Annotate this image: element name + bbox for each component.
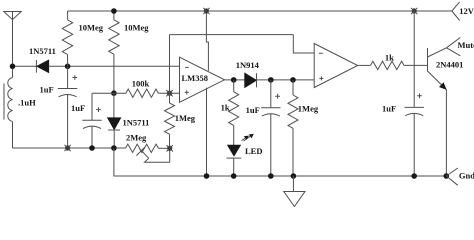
node X C4 top rail	[411, 8, 417, 14]
resistor R1 10Meg	[67, 11, 69, 20]
node dot C3 ground	[269, 174, 274, 179]
node dot C2 bottom	[90, 146, 95, 151]
node dot input-left	[10, 64, 15, 69]
node X 100k right / plus input	[166, 90, 172, 96]
resistor R2 10Meg	[113, 11, 115, 20]
svg-text:10Meg: 10Meg	[79, 22, 104, 32]
node dot R7 top	[291, 78, 296, 83]
node X 2Meg right / R4 bottom	[167, 145, 173, 151]
wire 100k node left to C2	[92, 92, 126, 94]
inductor L1 .1uH	[8, 78, 13, 122]
svg-text:LM358: LM358	[182, 73, 208, 83]
diode D3 1N914 (points right)	[245, 73, 256, 87]
wire R8 to Q1 base	[404, 64, 428, 66]
terminal Gnd	[446, 168, 458, 185]
plus sign C1	[72, 75, 77, 80]
wire U1A output	[225, 79, 315, 81]
wire feedback plus-node up	[169, 35, 171, 94]
svg-text:1uF: 1uF	[246, 105, 260, 115]
node dot R7 ground	[291, 174, 296, 179]
plus sign C2	[96, 107, 101, 112]
svg-text:1uF: 1uF	[40, 85, 54, 95]
svg-text:1N5711: 1N5711	[29, 46, 56, 56]
diode D1 1N5711 (points left)	[35, 60, 37, 73]
svg-text:12V: 12V	[459, 6, 474, 16]
svg-text:1uF: 1uF	[71, 103, 85, 113]
resistor R4 1Meg	[169, 93, 171, 103]
svg-text:2Meg: 2Meg	[126, 133, 147, 143]
op-amp U1A LM358	[180, 57, 225, 102]
svg-text:1N5711: 1N5711	[123, 117, 150, 127]
resistor R8 1k	[371, 61, 405, 69]
diode D2 1N5711 (points down)	[108, 118, 121, 129]
svg-text:10Meg: 10Meg	[124, 22, 149, 32]
wire U1B output	[358, 64, 371, 66]
svg-text:1uF: 1uF	[382, 104, 396, 114]
node dot D2 bottom	[112, 146, 117, 151]
wire input node horizontal	[13, 65, 37, 67]
plus sign C4	[417, 93, 422, 98]
wire feedback down to U1B minus	[293, 35, 314, 53]
wire LED to ground rail	[233, 158, 235, 176]
wire L1 bottom to bus	[12, 122, 14, 149]
potentiometer R5 2Meg	[126, 144, 159, 152]
terminal 12V	[452, 2, 460, 21]
Q1 emitter with arrow	[428, 71, 447, 90]
wire antenna lead down	[12, 20, 14, 78]
svg-text:1N914: 1N914	[236, 60, 260, 70]
wiper arrow 2Meg	[136, 147, 148, 158]
capacitor C1 1uF	[67, 66, 69, 88]
svg-text:.1uH: .1uH	[18, 97, 36, 107]
wire Q1 emitter to ground	[445, 90, 447, 176]
plus sign U1A	[185, 90, 189, 94]
Q1 collector	[428, 48, 447, 57]
capacitor C2 1uF	[91, 93, 93, 120]
wire D2 to bus	[113, 130, 115, 148]
svg-text:Gnd: Gnd	[459, 170, 474, 180]
svg-text:LED: LED	[245, 146, 262, 156]
capacitor C3 1uF	[270, 80, 272, 108]
node dot R2 top rail	[112, 9, 117, 14]
svg-text:2N4401: 2N4401	[436, 60, 463, 70]
wire feedback horizontal	[170, 34, 294, 36]
resistor R6 1k	[233, 80, 235, 92]
op-amp U1B	[314, 44, 358, 88]
node X C1 bottom	[64, 145, 70, 151]
LED D4	[228, 145, 241, 156]
node dot C4 ground	[412, 174, 417, 179]
wire top 12V rail	[68, 10, 452, 12]
wire U1A V- pin	[206, 88, 208, 176]
wire D1 to op-amp minus input	[49, 65, 180, 67]
wire U1A V+ pin	[206, 11, 208, 71]
svg-text:1Meg: 1Meg	[298, 104, 319, 114]
wire bottom bus	[13, 147, 126, 149]
minus sign U1A	[185, 66, 189, 68]
node dot LED ground	[231, 174, 236, 179]
plus sign C3	[275, 94, 280, 99]
capacitor C4 1uF	[413, 11, 415, 107]
LED arrows	[242, 135, 252, 141]
svg-text:Mute: Mute	[458, 40, 474, 50]
svg-text:100k: 100k	[132, 79, 150, 89]
wire wiper loop	[145, 148, 170, 162]
resistor R7 1Meg	[292, 80, 294, 95]
terminal Mute	[447, 38, 461, 56]
antenna AN1	[4, 12, 21, 20]
svg-text:1Meg: 1Meg	[175, 113, 196, 123]
minus sign U1B	[319, 52, 323, 54]
svg-text:1k: 1k	[385, 53, 394, 63]
plus sign U1B	[319, 76, 323, 80]
node dot C3 top	[269, 78, 274, 83]
node dot output/1k junction	[231, 78, 236, 83]
node dot R2-100k junction	[112, 91, 117, 96]
ground symbol	[292, 176, 294, 192]
node dot U1A V- ground	[204, 174, 209, 179]
svg-text:1k: 1k	[221, 103, 230, 113]
node dot emitter ground	[444, 174, 449, 179]
node dot D1 cathode junction	[65, 64, 70, 69]
node X U1A V+ top rail	[203, 8, 209, 14]
resistor R3 100k	[126, 89, 158, 97]
transistor Q1 2N4401 base bar	[427, 48, 429, 72]
wire bus drop to ground rail	[114, 148, 446, 176]
wire R2 to D2	[113, 93, 115, 118]
